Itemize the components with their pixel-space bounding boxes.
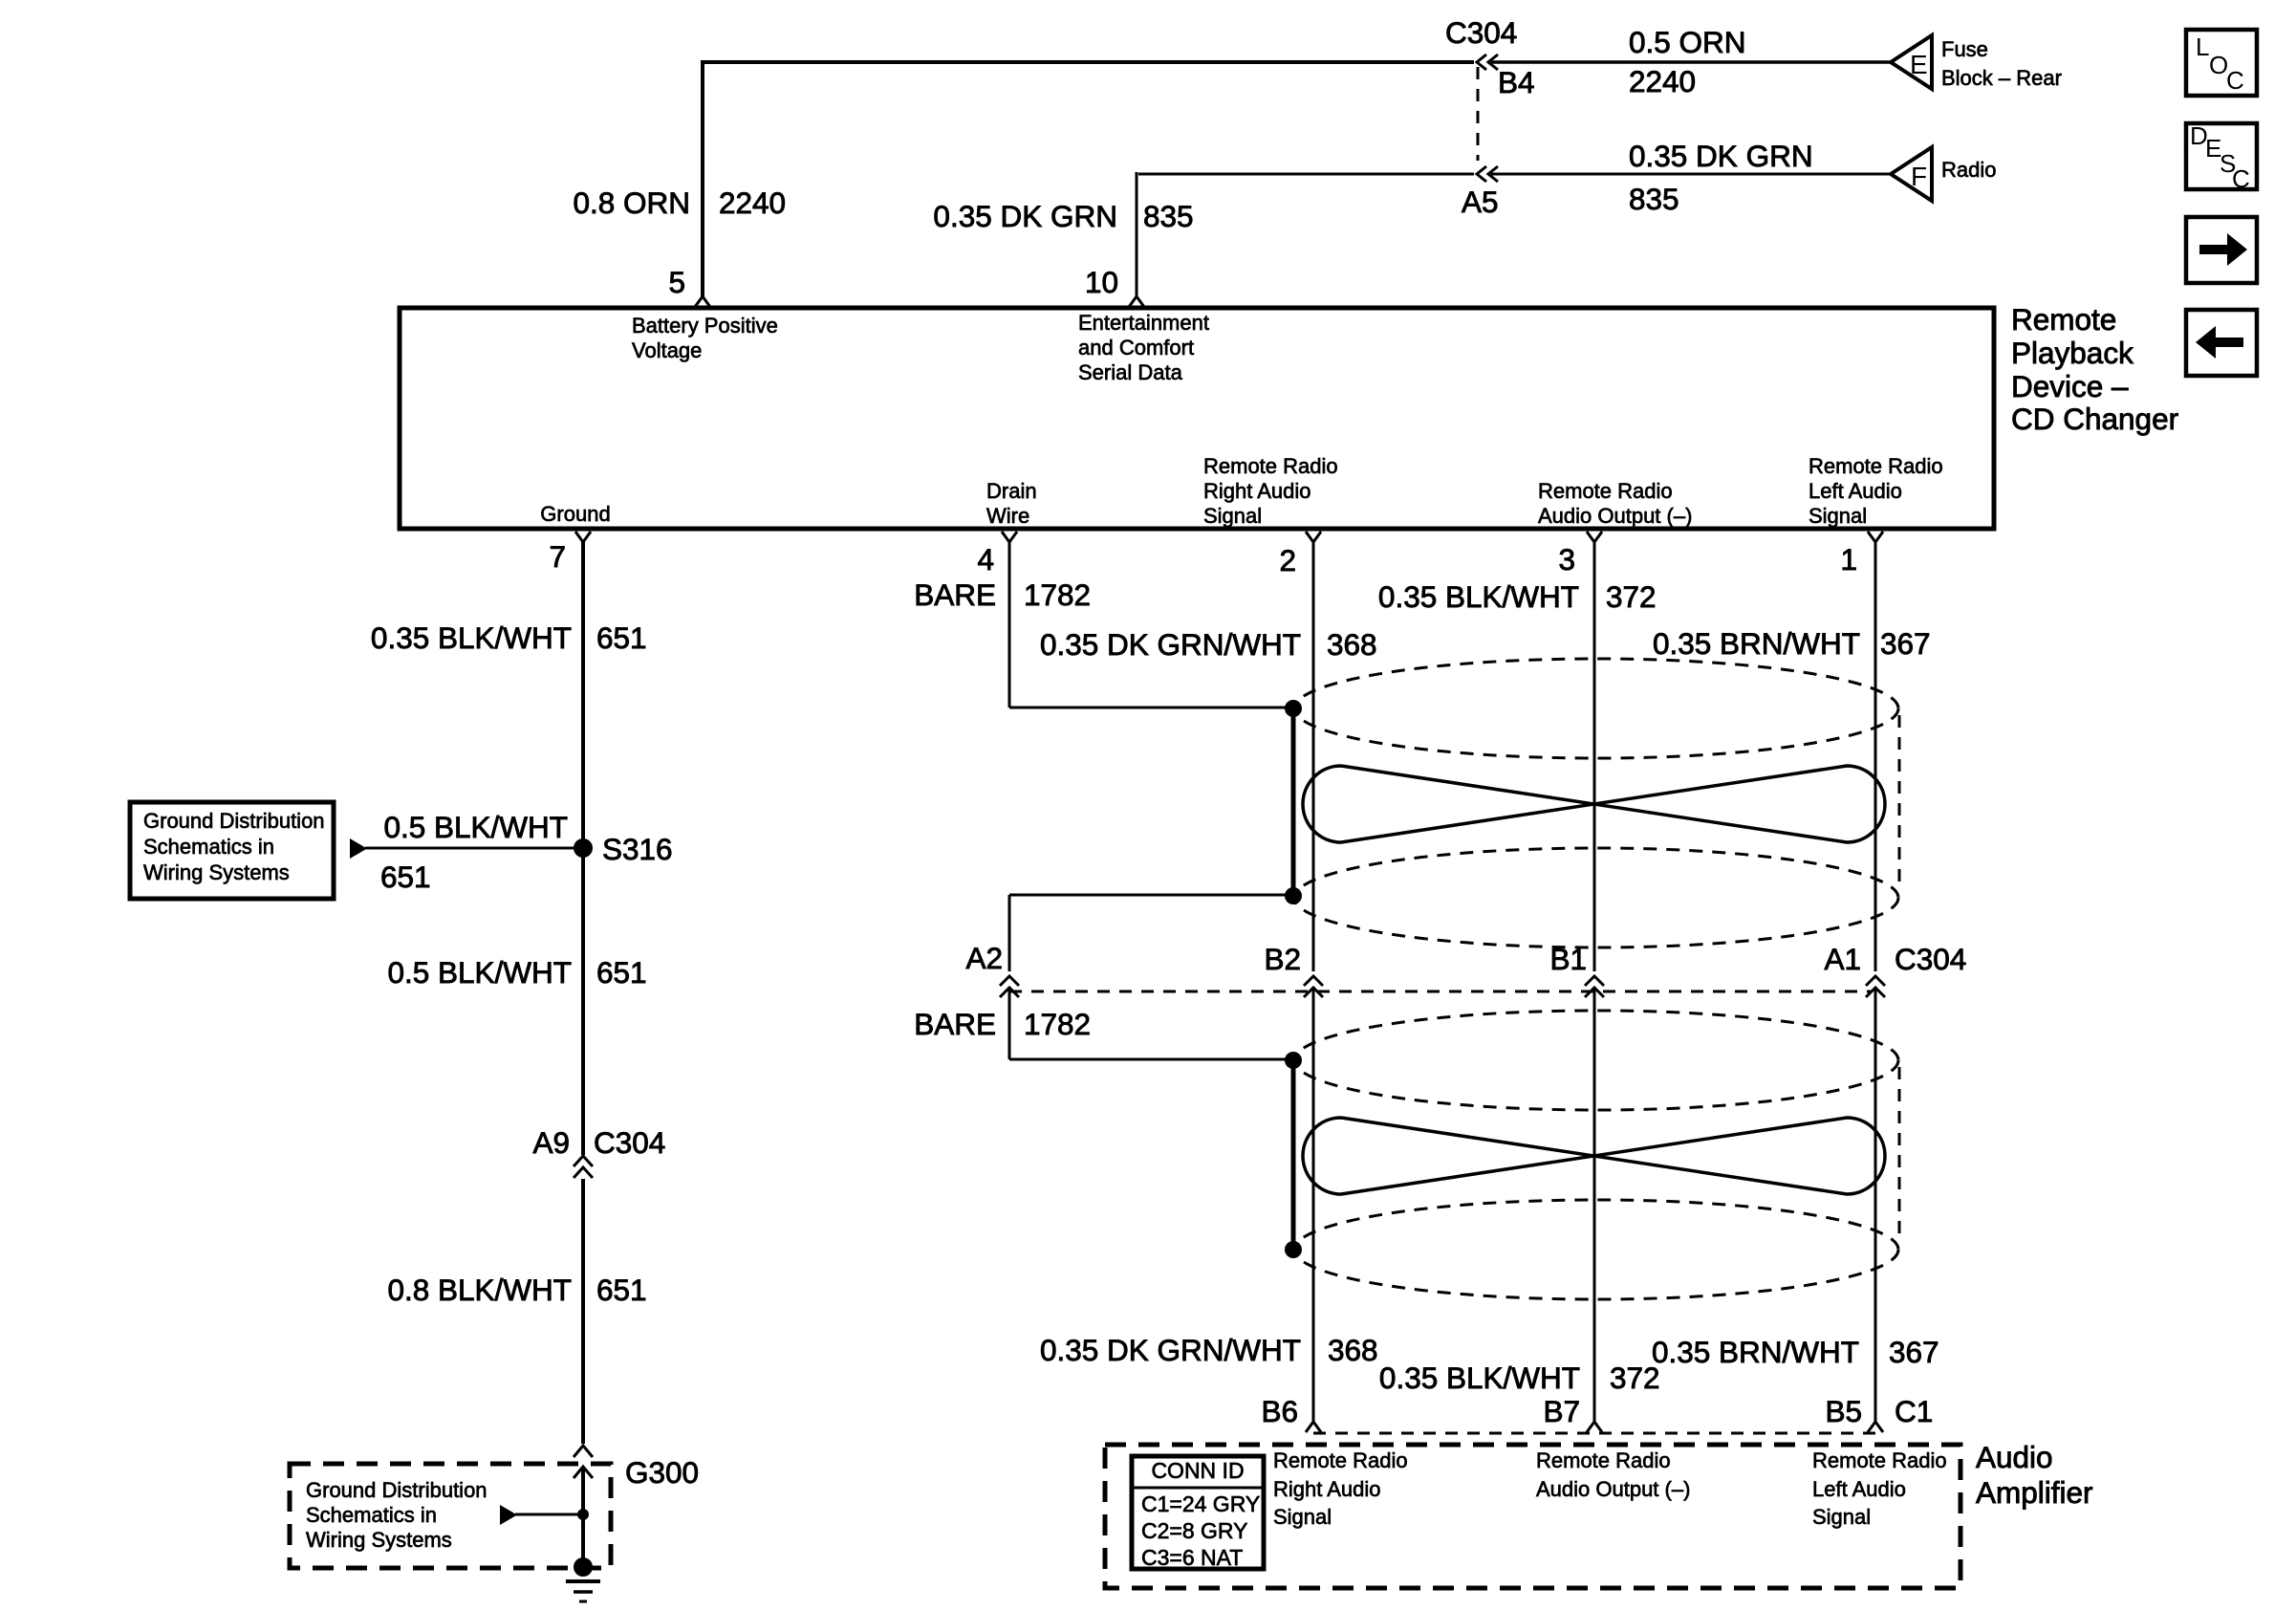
svg-text:C304: C304 bbox=[1895, 942, 1966, 976]
ground wire inside G300 bbox=[581, 1467, 585, 1567]
svg-text:B4: B4 bbox=[1498, 65, 1535, 99]
svg-text:B5: B5 bbox=[1825, 1394, 1862, 1428]
svg-text:B7: B7 bbox=[1543, 1394, 1580, 1428]
svg-text:C304: C304 bbox=[594, 1125, 665, 1160]
svg-text:Audio Output (–): Audio Output (–) bbox=[1538, 504, 1692, 528]
svg-text:Battery Positive: Battery Positive bbox=[632, 314, 778, 337]
shield junction dot group2 upper bbox=[1285, 1052, 1302, 1069]
svg-text:Wire: Wire bbox=[986, 504, 1029, 528]
svg-text:1782: 1782 bbox=[1024, 577, 1091, 612]
arrow from ground distribution box bbox=[350, 838, 367, 859]
wire to G300 junction bbox=[515, 1513, 583, 1516]
svg-text:0.5 BLK/WHT: 0.5 BLK/WHT bbox=[387, 955, 572, 990]
shield ellipse group2 bottom bbox=[1294, 1200, 1898, 1299]
svg-text:1: 1 bbox=[1840, 542, 1857, 577]
svg-text:E: E bbox=[1910, 50, 1928, 79]
shield ellipse group1 bottom bbox=[1294, 848, 1898, 947]
pin 7 fork bbox=[575, 532, 591, 542]
svg-text:Signal: Signal bbox=[1809, 504, 1867, 528]
svg-text:Audio: Audio bbox=[1976, 1440, 2053, 1474]
svg-text:651: 651 bbox=[380, 860, 431, 894]
svg-text:Ground Distribution: Ground Distribution bbox=[143, 809, 325, 833]
svg-text:C3=6 NAT: C3=6 NAT bbox=[1141, 1545, 1243, 1570]
drain wire BARE 1782 below C304 bbox=[1008, 987, 1011, 1059]
left arrow legend box bbox=[2186, 310, 2257, 376]
chevrons A2 bbox=[1000, 976, 1019, 997]
svg-text:0.35 BRN/WHT: 0.35 BRN/WHT bbox=[1653, 626, 1860, 661]
wire 0.8 ORN 2240 horizontal (battery feed) bbox=[701, 60, 1474, 64]
wire 0.8 ORN vertical to pin 5 bbox=[701, 60, 704, 296]
wire 372 pin 3 column lower bbox=[1593, 987, 1596, 1422]
chevron above G300 box bbox=[574, 1446, 593, 1457]
svg-text:Signal: Signal bbox=[1203, 504, 1262, 528]
splice S316 junction dot bbox=[574, 838, 593, 858]
svg-text:Amplifier: Amplifier bbox=[1976, 1475, 2093, 1510]
svg-text:C1=24 GRY: C1=24 GRY bbox=[1141, 1491, 1260, 1516]
connector C1 row dashed line bbox=[1313, 1432, 1879, 1435]
wire 0.35 DK GRN 835 to radio bbox=[1491, 173, 1892, 176]
connector C304 dashed link B4-A5 bbox=[1477, 67, 1480, 161]
splice wire 0.5 BLK/WHT to S316 bbox=[365, 847, 583, 850]
svg-text:2240: 2240 bbox=[719, 185, 786, 220]
ground wire 651 upper segment bbox=[581, 542, 585, 1155]
svg-text:Remote Radio: Remote Radio bbox=[1536, 1448, 1671, 1472]
svg-text:Block – Rear: Block – Rear bbox=[1941, 66, 2062, 90]
svg-text:Remote Radio: Remote Radio bbox=[1538, 479, 1673, 503]
svg-text:Drain: Drain bbox=[986, 479, 1037, 503]
ground symbol G300 bbox=[566, 1579, 600, 1583]
svg-text:Remote: Remote bbox=[2011, 302, 2116, 337]
fork B6 bbox=[1306, 1422, 1321, 1432]
svg-text:Right Audio: Right Audio bbox=[1273, 1477, 1381, 1501]
DESC legend box bbox=[2186, 123, 2257, 189]
svg-text:Right Audio: Right Audio bbox=[1203, 479, 1311, 503]
drain wire BARE 1782 to A2 bbox=[1009, 894, 1290, 897]
svg-text:367: 367 bbox=[1880, 626, 1931, 661]
svg-text:Left Audio: Left Audio bbox=[1812, 1477, 1906, 1501]
svg-text:CONN ID: CONN ID bbox=[1151, 1458, 1244, 1483]
wire 367 pin 1 column lower bbox=[1874, 987, 1877, 1422]
svg-text:0.35 DK GRN/WHT: 0.35 DK GRN/WHT bbox=[1040, 627, 1301, 662]
ground wire 651 lower segment bbox=[581, 1179, 585, 1444]
shield ellipse group2 top bbox=[1294, 1011, 1898, 1110]
svg-text:Signal: Signal bbox=[1812, 1505, 1871, 1529]
wire 367 BRN/WHT pin 1 column upper bbox=[1874, 542, 1877, 971]
svg-text:L: L bbox=[2196, 33, 2209, 61]
wire 368 DK GRN/WHT pin 2 column upper bbox=[1312, 542, 1315, 971]
svg-text:368: 368 bbox=[1328, 1333, 1378, 1367]
wire 0.35 DK GRN vertical to pin 10 bbox=[1136, 172, 1138, 296]
svg-text:Remote Radio: Remote Radio bbox=[1812, 1448, 1947, 1472]
svg-text:651: 651 bbox=[596, 620, 647, 655]
connector C304 row dashed line bbox=[1009, 991, 1872, 993]
svg-text:Entertainment: Entertainment bbox=[1078, 311, 1209, 335]
svg-text:Wiring Systems: Wiring Systems bbox=[306, 1528, 452, 1552]
svg-text:BARE: BARE bbox=[914, 577, 996, 612]
svg-text:0.35 BRN/WHT: 0.35 BRN/WHT bbox=[1652, 1335, 1859, 1369]
svg-text:0.8 ORN: 0.8 ORN bbox=[573, 185, 690, 220]
wire 0.5 ORN 2240 to fuse block bbox=[1491, 60, 1892, 64]
radio triangle F bbox=[1891, 147, 1932, 201]
pin 10 fork bbox=[1129, 296, 1144, 307]
svg-text:1782: 1782 bbox=[1024, 1007, 1091, 1041]
svg-text:A5: A5 bbox=[1462, 185, 1499, 219]
svg-text:and Comfort: and Comfort bbox=[1078, 336, 1194, 359]
pin 1 fork bbox=[1868, 532, 1883, 542]
CONN ID header divider bbox=[1132, 1487, 1264, 1490]
chevrons B1 bbox=[1585, 976, 1604, 997]
svg-text:651: 651 bbox=[596, 955, 647, 990]
wire 368 pin 2 column lower bbox=[1312, 987, 1315, 1422]
fork B5 bbox=[1868, 1422, 1883, 1432]
svg-text:Serial Data: Serial Data bbox=[1078, 360, 1183, 384]
svg-text:0.35 BLK/WHT: 0.35 BLK/WHT bbox=[1379, 1361, 1580, 1395]
svg-text:C: C bbox=[2226, 66, 2244, 95]
shield junction dot lower bbox=[1285, 887, 1302, 904]
pin 2 fork bbox=[1306, 532, 1321, 542]
drain wire BARE 1782 from pin 4 bbox=[1008, 542, 1011, 708]
shield junction dot upper bbox=[1285, 700, 1302, 717]
wire 0.35 DK GRN 835 horizontal (serial data) bbox=[1138, 173, 1474, 176]
svg-text:651: 651 bbox=[596, 1273, 647, 1307]
twisted pair bowtie group2 bbox=[1303, 1118, 1885, 1194]
svg-text:Signal: Signal bbox=[1273, 1505, 1332, 1529]
audio amplifier dashed box bbox=[1105, 1445, 1960, 1588]
svg-text:Wiring Systems: Wiring Systems bbox=[143, 860, 290, 884]
LOC legend box bbox=[2186, 30, 2257, 96]
svg-text:0.35 BLK/WHT: 0.35 BLK/WHT bbox=[1378, 579, 1579, 614]
svg-text:A1: A1 bbox=[1824, 942, 1861, 976]
connector chevrons B4 on orange wire bbox=[1477, 54, 1498, 70]
pin 4 fork bbox=[1002, 532, 1017, 542]
svg-text:Fuse: Fuse bbox=[1941, 37, 1988, 61]
svg-text:Left Audio: Left Audio bbox=[1809, 479, 1902, 503]
svg-text:B2: B2 bbox=[1264, 942, 1301, 976]
svg-text:Radio: Radio bbox=[1941, 158, 1996, 182]
svg-text:0.8 BLK/WHT: 0.8 BLK/WHT bbox=[387, 1273, 572, 1307]
svg-text:Ground: Ground bbox=[540, 502, 610, 526]
svg-text:B1: B1 bbox=[1549, 942, 1587, 976]
G300 junction dot bbox=[577, 1509, 589, 1520]
wire 372 BLK/WHT pin 3 column upper bbox=[1593, 542, 1596, 971]
svg-text:2240: 2240 bbox=[1629, 64, 1696, 98]
svg-text:0.35 DK GRN: 0.35 DK GRN bbox=[933, 199, 1117, 233]
svg-text:368: 368 bbox=[1327, 627, 1377, 662]
arrow inside G300 box bbox=[500, 1505, 517, 1525]
connector chevrons A5 on green wire bbox=[1477, 166, 1498, 182]
svg-text:2: 2 bbox=[1279, 543, 1296, 577]
right arrow legend box bbox=[2186, 217, 2257, 283]
svg-text:10: 10 bbox=[1085, 265, 1118, 299]
svg-text:Device –: Device – bbox=[2011, 369, 2129, 403]
ground distribution reference box bbox=[130, 802, 334, 899]
svg-text:0.5 BLK/WHT: 0.5 BLK/WHT bbox=[383, 810, 568, 844]
chevrons A1 bbox=[1866, 976, 1885, 997]
G300 ground terminal dot bbox=[574, 1557, 593, 1577]
svg-text:G300: G300 bbox=[625, 1455, 699, 1490]
svg-text:A2: A2 bbox=[965, 941, 1003, 975]
fuse block triangle E bbox=[1891, 35, 1932, 89]
svg-text:Schematics in: Schematics in bbox=[143, 835, 274, 859]
fork B7 bbox=[1587, 1422, 1602, 1432]
CD changer module box bbox=[400, 308, 1994, 529]
svg-text:Schematics in: Schematics in bbox=[306, 1503, 437, 1527]
G300 ground distribution dashed box bbox=[290, 1464, 611, 1568]
chevrons B2 bbox=[1304, 976, 1323, 997]
shield drain line group 1 bbox=[1291, 708, 1296, 896]
svg-text:367: 367 bbox=[1889, 1335, 1939, 1369]
shield right edge group2 bbox=[1898, 1067, 1901, 1243]
arrowhead into G300 bbox=[574, 1467, 593, 1478]
svg-text:Voltage: Voltage bbox=[632, 338, 702, 362]
svg-text:0.35 DK GRN: 0.35 DK GRN bbox=[1629, 139, 1813, 173]
svg-text:F: F bbox=[1911, 162, 1927, 191]
right arrow glyph bbox=[2199, 233, 2247, 266]
svg-text:C1: C1 bbox=[1895, 1394, 1933, 1428]
svg-text:0.35 BLK/WHT: 0.35 BLK/WHT bbox=[371, 620, 572, 655]
svg-text:Remote Radio: Remote Radio bbox=[1273, 1448, 1408, 1472]
svg-text:B6: B6 bbox=[1261, 1394, 1298, 1428]
svg-text:835: 835 bbox=[1143, 199, 1194, 233]
svg-text:Audio Output (–): Audio Output (–) bbox=[1536, 1477, 1690, 1501]
svg-text:S316: S316 bbox=[602, 832, 673, 866]
svg-text:Remote Radio: Remote Radio bbox=[1203, 454, 1338, 478]
svg-text:7: 7 bbox=[549, 539, 566, 574]
twisted pair bowtie group1 bbox=[1303, 766, 1885, 842]
svg-text:BARE: BARE bbox=[914, 1007, 996, 1041]
left arrow glyph bbox=[2196, 326, 2243, 359]
pin 3 fork bbox=[1587, 532, 1602, 542]
svg-text:C304: C304 bbox=[1445, 15, 1517, 50]
shield junction dot group2 lower bbox=[1285, 1241, 1302, 1258]
svg-text:0.5 ORN: 0.5 ORN bbox=[1629, 25, 1746, 59]
svg-text:Playback: Playback bbox=[2011, 336, 2134, 370]
pin 5 fork bbox=[695, 296, 710, 307]
svg-text:A9: A9 bbox=[532, 1125, 570, 1160]
svg-text:5: 5 bbox=[668, 265, 685, 299]
svg-text:4: 4 bbox=[977, 542, 994, 577]
svg-text:Remote Radio: Remote Radio bbox=[1809, 454, 1943, 478]
svg-text:Ground Distribution: Ground Distribution bbox=[306, 1478, 487, 1502]
svg-text:372: 372 bbox=[1606, 579, 1657, 614]
svg-text:0.35 DK GRN/WHT: 0.35 DK GRN/WHT bbox=[1040, 1333, 1301, 1367]
svg-text:835: 835 bbox=[1629, 182, 1679, 216]
shield ellipse group1 top bbox=[1294, 659, 1898, 758]
shield drain line group 2 bbox=[1291, 1060, 1296, 1250]
svg-text:CD Changer: CD Changer bbox=[2011, 402, 2178, 436]
connector chevrons A9 C304 on ground wire bbox=[574, 1156, 593, 1178]
svg-text:C: C bbox=[2232, 164, 2250, 193]
svg-text:3: 3 bbox=[1558, 542, 1575, 577]
CONN ID table box bbox=[1132, 1456, 1264, 1569]
svg-text:C2=8 GRY: C2=8 GRY bbox=[1141, 1518, 1247, 1543]
shield right edge group1 bbox=[1898, 715, 1901, 891]
